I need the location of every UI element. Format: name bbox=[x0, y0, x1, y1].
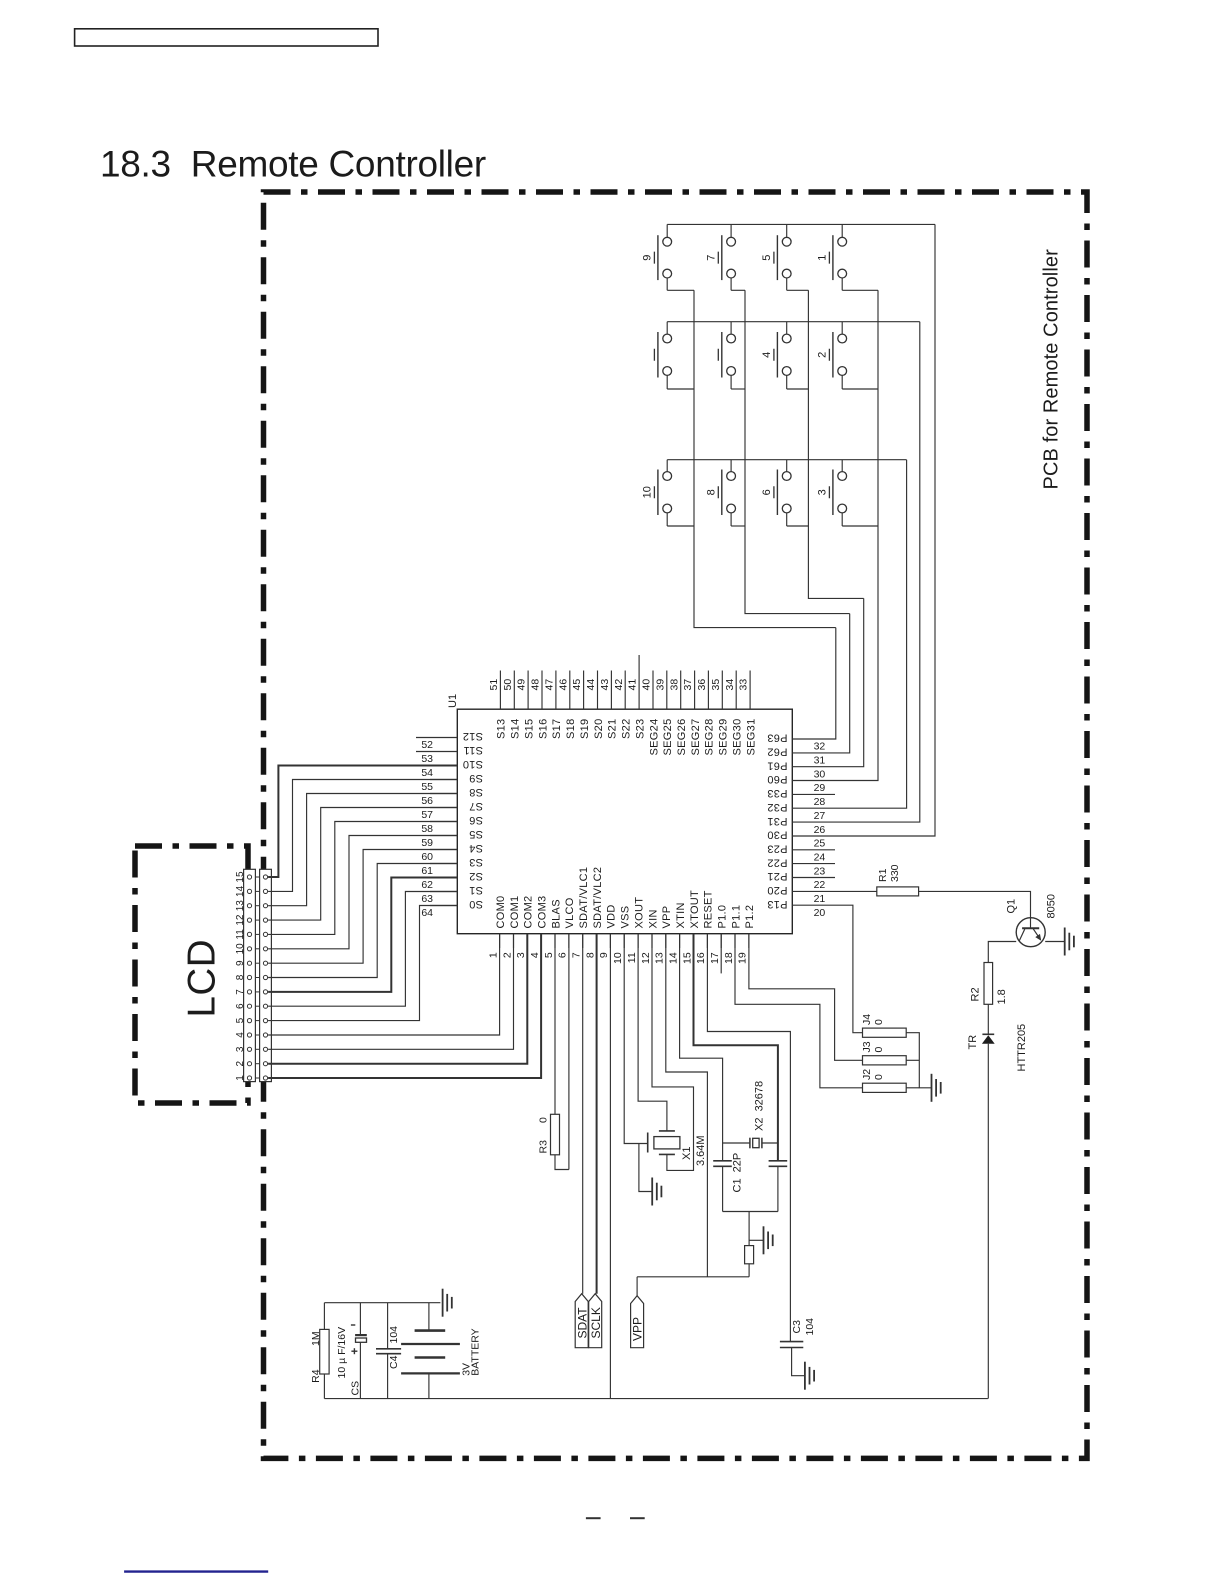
switch SW bbox=[718, 322, 745, 389]
op-amp U1 body bbox=[457, 709, 792, 934]
svg-text:P20: P20 bbox=[767, 884, 787, 896]
svg-text:23: 23 bbox=[814, 865, 826, 877]
svg-text:42: 42 bbox=[613, 679, 625, 691]
ground at X1 bbox=[652, 1178, 661, 1206]
svg-text:P23: P23 bbox=[767, 843, 787, 855]
svg-text:S17: S17 bbox=[551, 719, 563, 739]
svg-text:S21: S21 bbox=[607, 719, 619, 739]
wire connector 9 to pin 60 bbox=[268, 850, 457, 964]
svg-text:S12: S12 bbox=[463, 730, 483, 742]
resistor R2 bbox=[984, 963, 993, 1005]
svg-text:P1.1: P1.1 bbox=[730, 905, 742, 929]
keypad row bus 2 bbox=[667, 321, 920, 323]
pin 12 XIN bbox=[651, 934, 653, 948]
pin 42 S22 bbox=[624, 671, 626, 710]
connector pin 12 bbox=[247, 918, 251, 922]
switch SW2 bbox=[829, 322, 878, 389]
polarity plus bbox=[351, 1348, 357, 1354]
svg-text:P33: P33 bbox=[767, 787, 787, 799]
svg-text:P60: P60 bbox=[767, 773, 787, 785]
svg-text:28: 28 bbox=[814, 796, 826, 808]
polarity minus bbox=[351, 1324, 355, 1326]
pin 3 COM2 bbox=[526, 934, 528, 948]
pin 24 P23 bbox=[792, 849, 835, 851]
svg-text:P32: P32 bbox=[767, 801, 787, 813]
svg-text:9: 9 bbox=[598, 952, 610, 958]
svg-text:51: 51 bbox=[488, 679, 500, 691]
wire pin 16 RESET to C3 bbox=[707, 934, 790, 1342]
svg-text:X2 32678: X2 32678 bbox=[754, 1081, 766, 1131]
PCB connector strip B bbox=[260, 869, 272, 1081]
wire row bus 2 to pin 26 bbox=[835, 322, 920, 822]
pin 7 SDAT/VLC1 bbox=[582, 934, 584, 948]
svg-text:8050: 8050 bbox=[1046, 894, 1058, 918]
svg-text:26: 26 bbox=[814, 824, 826, 836]
svg-text:RESET: RESET bbox=[703, 890, 715, 928]
svg-text:Q1: Q1 bbox=[1006, 899, 1018, 914]
pin 44 S20 bbox=[597, 671, 599, 710]
switch SW bbox=[654, 322, 694, 389]
ground at C3 bbox=[805, 1362, 814, 1390]
svg-text:24: 24 bbox=[814, 852, 826, 864]
wire row bus 1 to pin 25 bbox=[835, 224, 935, 836]
wire column1 to pin 32 bbox=[834, 628, 837, 739]
flag SCLK bbox=[589, 1294, 602, 1348]
capacitor C1b bbox=[769, 1161, 788, 1212]
svg-text:8: 8 bbox=[706, 489, 718, 495]
wire Q1 emitter to ground bbox=[1045, 941, 1065, 943]
svg-text:5: 5 bbox=[543, 952, 555, 958]
pin 52 S12 bbox=[416, 737, 457, 739]
svg-text:R1: R1 bbox=[877, 868, 889, 882]
pin 33 SEG31 bbox=[749, 671, 751, 710]
wire pin 20 to J4 bbox=[835, 905, 863, 1032]
svg-text:59: 59 bbox=[421, 837, 433, 849]
svg-text:BLAS: BLAS bbox=[550, 899, 562, 928]
svg-text:SEG25: SEG25 bbox=[662, 719, 674, 756]
pin 4 COM3 bbox=[540, 934, 542, 948]
svg-text:10: 10 bbox=[235, 943, 246, 955]
svg-text:39: 39 bbox=[654, 679, 666, 691]
svg-text:3.64M: 3.64M bbox=[695, 1135, 707, 1166]
pin 57 S7 bbox=[430, 807, 457, 809]
wire connector 3 to pin 2 bbox=[268, 934, 513, 1050]
connector pin 13 bbox=[247, 904, 251, 908]
wire to ground at C1 bbox=[749, 1239, 763, 1241]
capacitor CS bbox=[355, 1303, 367, 1399]
svg-text:29: 29 bbox=[814, 782, 826, 794]
svg-text:SEG30: SEG30 bbox=[732, 719, 744, 756]
svg-text:63: 63 bbox=[421, 893, 433, 905]
pin 26 P31 bbox=[792, 821, 835, 823]
pin 47 S17 bbox=[555, 671, 557, 710]
wire pin 18 to J2 bbox=[735, 934, 863, 1088]
keypad row bus 3 bbox=[667, 459, 906, 461]
svg-text:47: 47 bbox=[544, 679, 556, 691]
connector pin 1 bbox=[247, 1076, 251, 1080]
pin 40 SEG24 bbox=[652, 671, 654, 710]
wire connector 4 to pin 1 bbox=[268, 934, 500, 1035]
svg-text:J3: J3 bbox=[861, 1041, 873, 1052]
svg-text:20: 20 bbox=[814, 907, 826, 919]
svg-text:1M: 1M bbox=[310, 1331, 322, 1346]
PCB dash-dot border bbox=[264, 192, 1088, 1458]
switch SW1 bbox=[829, 224, 878, 290]
svg-text:COM0: COM0 bbox=[495, 896, 507, 929]
wire pin 15 XTOUT to X2 bbox=[694, 934, 778, 1161]
svg-text:30: 30 bbox=[814, 768, 826, 780]
wire column3 to pin 30 bbox=[835, 598, 864, 766]
svg-text:7: 7 bbox=[706, 255, 718, 261]
wire VSS branch to ground bbox=[639, 1144, 652, 1192]
battery BT1 bbox=[401, 1303, 460, 1399]
connector pin 11 bbox=[247, 932, 251, 936]
jumper J3 bbox=[863, 1056, 907, 1065]
pin 51 S13 bbox=[499, 671, 501, 710]
wire resistor to VPP rail bbox=[748, 1264, 750, 1277]
resistor R4 bbox=[323, 1303, 325, 1330]
pin 6 VLCO bbox=[568, 934, 570, 948]
resistor R1 bbox=[835, 890, 877, 892]
svg-text:14: 14 bbox=[667, 952, 679, 964]
wire jumpers to ground bbox=[906, 1033, 931, 1088]
pin 17 P1.0 bbox=[720, 934, 722, 948]
wire pin 11 XOUT to X1 bbox=[638, 934, 667, 1131]
svg-text:S19: S19 bbox=[579, 719, 591, 739]
svg-text:6: 6 bbox=[557, 952, 569, 958]
svg-text:U1: U1 bbox=[447, 694, 459, 708]
pin 13 VPP bbox=[665, 934, 667, 948]
svg-text:22: 22 bbox=[814, 879, 826, 891]
svg-text:52: 52 bbox=[421, 739, 433, 751]
svg-text:11: 11 bbox=[235, 929, 246, 940]
svg-text:17: 17 bbox=[709, 952, 721, 964]
svg-text:15: 15 bbox=[235, 871, 246, 883]
svg-text:S1: S1 bbox=[469, 884, 483, 896]
svg-text:X1: X1 bbox=[681, 1147, 693, 1160]
svg-text:58: 58 bbox=[421, 823, 433, 835]
svg-text:0: 0 bbox=[538, 1117, 550, 1123]
svg-text:61: 61 bbox=[421, 865, 433, 877]
wire C1 common down bbox=[748, 1212, 750, 1246]
svg-text:HTTR205: HTTR205 bbox=[1016, 1024, 1028, 1072]
svg-text:3: 3 bbox=[817, 489, 829, 495]
switch SW9 bbox=[654, 224, 694, 290]
wire connector 13 to pin 56 bbox=[268, 794, 457, 906]
pin 39 SEG25 bbox=[666, 671, 668, 710]
svg-text:64: 64 bbox=[421, 907, 433, 919]
svg-text:2: 2 bbox=[235, 1060, 246, 1066]
pin 64 S0 bbox=[430, 905, 457, 907]
pin 1 COM0 bbox=[499, 934, 501, 948]
VPP rail bbox=[637, 1276, 749, 1278]
pin 29 P60 bbox=[792, 780, 835, 782]
pin 34 SEG30 bbox=[735, 671, 737, 710]
diode TR bbox=[982, 1034, 995, 1044]
svg-text:S14: S14 bbox=[510, 719, 522, 739]
svg-text:R4: R4 bbox=[310, 1369, 322, 1383]
capacitor C1a bbox=[713, 1161, 732, 1212]
header box bbox=[75, 29, 378, 46]
svg-text:XTOUT: XTOUT bbox=[689, 890, 701, 929]
connector pin 5 bbox=[247, 1019, 251, 1023]
svg-text:P1.2: P1.2 bbox=[744, 905, 756, 929]
svg-text:2: 2 bbox=[817, 352, 829, 358]
wire connector 10 to pin 59 bbox=[268, 836, 457, 949]
LCD dash-dot border bbox=[135, 846, 248, 1103]
capacitor C3 bbox=[780, 1342, 803, 1348]
switch SW10 bbox=[654, 460, 694, 526]
svg-text:S0: S0 bbox=[469, 898, 483, 910]
keypad row bus 1 bbox=[667, 223, 935, 225]
pin 46 S18 bbox=[569, 671, 571, 710]
supply rail bottom bbox=[324, 1398, 988, 1400]
svg-text:VSS: VSS bbox=[620, 906, 632, 929]
svg-text:S20: S20 bbox=[593, 719, 605, 739]
wire R2 to TR bbox=[987, 1004, 989, 1034]
pin 45 S19 bbox=[583, 671, 585, 710]
LCD connector strip A bbox=[244, 869, 256, 1081]
svg-text:4: 4 bbox=[529, 952, 541, 958]
footer blue rule bbox=[124, 1570, 268, 1572]
pin 62 S2 bbox=[430, 877, 457, 879]
svg-text:13: 13 bbox=[235, 900, 246, 912]
svg-text:2: 2 bbox=[501, 952, 513, 958]
svg-text:6: 6 bbox=[235, 1003, 246, 1009]
svg-text:55: 55 bbox=[421, 781, 433, 793]
svg-text:48: 48 bbox=[530, 679, 542, 691]
connector pin 3 bbox=[247, 1047, 251, 1051]
svg-text:P1.0: P1.0 bbox=[717, 905, 729, 929]
svg-text:S5: S5 bbox=[469, 828, 483, 840]
wire connector 12 to pin 57 bbox=[268, 808, 457, 921]
pin 10 VSS bbox=[623, 934, 625, 948]
wire pin 14 XTIN to X2 bbox=[680, 934, 723, 1161]
pin 28 P33 bbox=[792, 793, 835, 795]
svg-text:8: 8 bbox=[235, 974, 246, 980]
pin 2 COM1 bbox=[513, 934, 515, 948]
pin 56 S8 bbox=[430, 793, 457, 795]
svg-text:9: 9 bbox=[235, 960, 246, 966]
pin 15 XTOUT bbox=[693, 934, 695, 948]
ground rail top bbox=[324, 1302, 440, 1304]
svg-text:S22: S22 bbox=[621, 719, 633, 739]
svg-text:S8: S8 bbox=[469, 786, 483, 798]
pin 53 S11 bbox=[416, 751, 457, 753]
capacitor C4 bbox=[376, 1303, 401, 1399]
wire pin 19 to J3 bbox=[749, 934, 863, 1061]
svg-text:XTIN: XTIN bbox=[675, 902, 687, 928]
pin 49 S15 bbox=[527, 671, 529, 710]
svg-text:0: 0 bbox=[873, 1047, 885, 1053]
svg-text:S10: S10 bbox=[463, 758, 483, 770]
svg-text:7: 7 bbox=[235, 989, 246, 995]
svg-text:25: 25 bbox=[814, 838, 826, 850]
wire connector 5 to pin 64 bbox=[268, 906, 457, 1021]
transistor Q1 bbox=[1016, 918, 1045, 947]
svg-text:VPP: VPP bbox=[631, 1317, 645, 1341]
svg-text:P63: P63 bbox=[767, 732, 787, 744]
wire C3 to ground bbox=[792, 1348, 805, 1376]
pin 31 P62 bbox=[792, 752, 835, 754]
switch SW5 bbox=[774, 224, 809, 290]
pin 50 S14 bbox=[513, 671, 515, 710]
svg-text:33: 33 bbox=[738, 679, 750, 691]
svg-text:SDAT/VLC2: SDAT/VLC2 bbox=[592, 867, 604, 929]
pin 11 XOUT bbox=[637, 934, 639, 948]
switch SW6 bbox=[774, 460, 809, 526]
svg-text:P22: P22 bbox=[767, 856, 787, 868]
wire column2 to pin 31 bbox=[835, 614, 850, 753]
svg-text:14: 14 bbox=[235, 885, 246, 897]
pin 5 BLAS bbox=[554, 934, 556, 948]
keypad column wire 3 bbox=[808, 290, 863, 598]
pin 43 S21 bbox=[610, 671, 612, 710]
svg-text:S18: S18 bbox=[565, 719, 577, 739]
svg-text:S23: S23 bbox=[634, 719, 646, 739]
pin 58 S6 bbox=[430, 821, 457, 823]
wire connector 15 to pin 54 bbox=[268, 766, 457, 878]
connector pin 9 bbox=[247, 961, 251, 965]
wire pin 6 VLCO bbox=[568, 934, 570, 1170]
svg-text:46: 46 bbox=[557, 679, 569, 691]
wire connector 8 to pin 61 bbox=[268, 864, 457, 978]
svg-text:40: 40 bbox=[641, 679, 653, 691]
svg-text:LCD: LCD bbox=[181, 939, 224, 1018]
pin 21 P20 bbox=[792, 890, 835, 892]
pin 48 S16 bbox=[541, 671, 543, 710]
svg-text:1: 1 bbox=[487, 952, 499, 958]
connector pin 10 bbox=[247, 947, 251, 951]
svg-text:P62: P62 bbox=[767, 746, 787, 758]
svg-text:45: 45 bbox=[571, 679, 583, 691]
svg-text:SEG24: SEG24 bbox=[648, 719, 660, 756]
keypad column wire 2 bbox=[745, 290, 850, 613]
svg-text:SEG28: SEG28 bbox=[704, 719, 716, 756]
pin 9 VDD bbox=[609, 934, 611, 948]
wire connector 11 to pin 58 bbox=[268, 822, 457, 935]
ground at Q1 emitter bbox=[1065, 928, 1074, 956]
svg-text:18: 18 bbox=[723, 952, 735, 964]
svg-text:0: 0 bbox=[873, 1019, 885, 1025]
switch SW3 bbox=[829, 460, 878, 526]
svg-text:P30: P30 bbox=[767, 829, 787, 841]
wire connector 1 to pin 4 bbox=[268, 934, 541, 1078]
svg-text:S15: S15 bbox=[523, 719, 535, 739]
wire TR to supply rail bbox=[987, 1044, 989, 1399]
svg-text:31: 31 bbox=[814, 755, 826, 767]
connector pin 15 bbox=[247, 875, 251, 879]
pin 61 S3 bbox=[430, 863, 457, 865]
svg-text:57: 57 bbox=[421, 809, 433, 821]
svg-text:3: 3 bbox=[235, 1046, 246, 1052]
pin 22 P21 bbox=[792, 877, 835, 879]
ground at jumpers bbox=[932, 1074, 941, 1102]
pin 17 stub bbox=[720, 934, 722, 974]
resonator X1 bbox=[648, 1131, 680, 1155]
svg-text:21: 21 bbox=[814, 893, 826, 905]
svg-text:SEG27: SEG27 bbox=[690, 719, 702, 756]
svg-text:0: 0 bbox=[873, 1074, 885, 1080]
pin 63 S1 bbox=[430, 891, 457, 893]
svg-text:4: 4 bbox=[761, 352, 773, 358]
svg-text:16: 16 bbox=[695, 952, 707, 964]
wire pin 5 BLAS to R3 bbox=[554, 934, 556, 1115]
pin 14 XTIN bbox=[679, 934, 681, 948]
wire pin 13 VPP bbox=[666, 934, 708, 1277]
wire R3 to VLCO bbox=[555, 1155, 569, 1170]
svg-text:44: 44 bbox=[585, 679, 597, 691]
wire pin 10 VSS to X1 bbox=[624, 934, 648, 1144]
svg-text:43: 43 bbox=[599, 679, 611, 691]
svg-text:COM2: COM2 bbox=[523, 896, 535, 929]
svg-text:10: 10 bbox=[612, 952, 624, 964]
svg-text:8: 8 bbox=[584, 952, 596, 958]
svg-text:5: 5 bbox=[761, 255, 773, 261]
svg-text:PCB for Remote Controller: PCB for Remote Controller bbox=[1041, 249, 1063, 490]
wire pin 7 to SDAT flag bbox=[582, 934, 584, 1294]
jumper J2 bbox=[863, 1083, 907, 1092]
svg-text:R2: R2 bbox=[970, 987, 982, 1001]
pin 32 P63 bbox=[792, 738, 835, 740]
jumper J4 bbox=[863, 1028, 907, 1037]
svg-text:37: 37 bbox=[682, 679, 694, 691]
svg-text:SEG26: SEG26 bbox=[676, 719, 688, 756]
pin 8 SDAT/VLC2 bbox=[596, 934, 598, 948]
wire connector 6 to pin 63 bbox=[268, 892, 457, 1007]
svg-text:SEG31: SEG31 bbox=[745, 719, 757, 756]
pin 54 S10 bbox=[430, 765, 457, 767]
svg-text:50: 50 bbox=[502, 679, 514, 691]
svg-text:1: 1 bbox=[817, 255, 829, 261]
ground at C1 bbox=[764, 1226, 773, 1254]
pin 36 SEG28 bbox=[707, 671, 709, 710]
wire Q1 collector to R2 bbox=[988, 942, 1016, 963]
svg-text:TR: TR bbox=[967, 1035, 979, 1050]
svg-text:S2: S2 bbox=[469, 870, 483, 882]
svg-text:S7: S7 bbox=[469, 800, 483, 812]
ground at battery bbox=[443, 1289, 452, 1317]
pin 38 SEG26 bbox=[680, 671, 682, 710]
svg-text:49: 49 bbox=[516, 679, 528, 691]
pin 16 RESET bbox=[706, 934, 708, 948]
svg-text:6: 6 bbox=[761, 489, 773, 495]
svg-text:4: 4 bbox=[235, 1032, 246, 1038]
svg-text:54: 54 bbox=[421, 767, 433, 779]
svg-text:J2: J2 bbox=[861, 1069, 873, 1080]
pin 41 S23 bbox=[638, 655, 640, 709]
resistor R3 bbox=[551, 1114, 560, 1155]
svg-text:18.3 Remote Controller: 18.3 Remote Controller bbox=[100, 144, 486, 185]
switch SW7 bbox=[718, 224, 745, 290]
svg-text:COM3: COM3 bbox=[536, 896, 548, 929]
pin 27 P32 bbox=[792, 807, 835, 809]
svg-text:S16: S16 bbox=[537, 719, 549, 739]
pin 25 P30 bbox=[792, 835, 835, 837]
pin 59 S5 bbox=[430, 835, 457, 837]
svg-text:VPP: VPP bbox=[661, 906, 673, 929]
keypad column wire 1 bbox=[694, 290, 836, 627]
svg-text:1: 1 bbox=[235, 1075, 246, 1081]
svg-text:J4: J4 bbox=[861, 1014, 873, 1025]
resistor below C1 bbox=[745, 1246, 754, 1264]
wire J3 right bbox=[906, 1059, 919, 1061]
svg-text:S3: S3 bbox=[469, 856, 483, 868]
svg-text:1.8: 1.8 bbox=[996, 989, 1008, 1004]
connector pin 6 bbox=[247, 1004, 251, 1008]
svg-text:62: 62 bbox=[421, 879, 433, 891]
svg-text:104: 104 bbox=[804, 1318, 816, 1336]
